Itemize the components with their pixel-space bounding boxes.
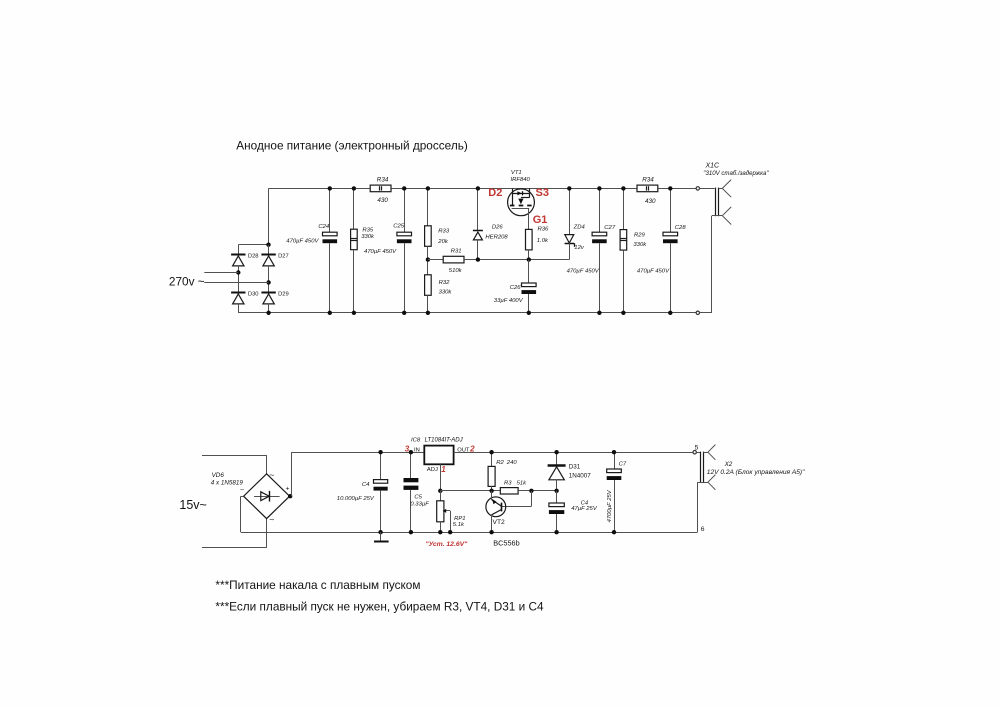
wire bottom rail xyxy=(241,532,697,534)
transistor VT1 IRF840 MOSFET xyxy=(508,188,535,215)
svg-text:VT1: VT1 xyxy=(511,170,522,176)
wiper RP1 xyxy=(443,509,451,532)
diode D31 xyxy=(548,452,566,491)
wire xyxy=(268,304,270,313)
junction xyxy=(409,530,413,534)
svg-text:HER208: HER208 xyxy=(485,234,508,240)
svg-text:4700µF 25V: 4700µF 25V xyxy=(607,489,613,522)
svg-text:"310V стаб./задержка": "310V стаб./задержка" xyxy=(703,170,769,177)
wire xyxy=(440,464,442,490)
junction xyxy=(266,280,270,284)
junction xyxy=(402,186,406,190)
wire AC input 1 xyxy=(204,272,238,274)
svg-text:IRF840: IRF840 xyxy=(511,177,531,183)
wire xyxy=(440,490,500,492)
svg-text:12v: 12v xyxy=(574,245,585,251)
svg-text:"Уст. 12.6V": "Уст. 12.6V" xyxy=(425,541,468,548)
svg-text:C4: C4 xyxy=(362,482,370,488)
svg-text:R33: R33 xyxy=(438,229,450,235)
junction xyxy=(597,311,601,315)
junction xyxy=(668,311,672,315)
junction xyxy=(426,311,430,315)
wire xyxy=(658,188,696,190)
capacitor C24 xyxy=(323,232,338,243)
wire xyxy=(491,452,493,466)
zener ZD4 xyxy=(565,188,575,259)
resistor R2 xyxy=(488,466,495,486)
svg-text:10.000µF 25V: 10.000µF 25V xyxy=(337,496,375,502)
wire xyxy=(427,295,429,313)
connector X2 xyxy=(696,445,715,533)
junction xyxy=(597,186,601,190)
svg-text:0.33µF: 0.33µF xyxy=(410,502,429,508)
svg-text:+: + xyxy=(286,486,290,493)
junction xyxy=(621,311,625,315)
svg-text:20k: 20k xyxy=(437,239,449,245)
wire xyxy=(268,188,270,244)
svg-text:330k: 330k xyxy=(361,234,375,240)
svg-text:430: 430 xyxy=(377,197,388,204)
wire xyxy=(599,243,601,313)
junction xyxy=(409,450,413,454)
ground xyxy=(374,532,389,541)
svg-text:5: 5 xyxy=(695,444,699,451)
wire xyxy=(238,244,268,246)
resistor R31 xyxy=(443,256,464,263)
wire xyxy=(440,491,442,501)
junction xyxy=(266,243,270,247)
svg-text:X1C: X1C xyxy=(705,163,721,170)
svg-text:Анодное питание (электронный д: Анодное питание (электронный дроссель) xyxy=(236,139,468,153)
wire AC in bottom xyxy=(202,547,267,549)
wire xyxy=(556,491,558,503)
svg-text:51k: 51k xyxy=(517,481,528,487)
wire xyxy=(329,188,331,232)
svg-text:R35: R35 xyxy=(362,228,374,234)
wire xyxy=(518,490,531,492)
junction xyxy=(352,311,356,315)
svg-text:470µF 450V: 470µF 450V xyxy=(637,269,670,275)
junction xyxy=(426,186,430,190)
svg-text:RP1: RP1 xyxy=(454,516,465,522)
wire xyxy=(518,490,557,492)
svg-text:C24: C24 xyxy=(318,224,330,230)
diode D26 xyxy=(473,231,483,240)
svg-text:D27: D27 xyxy=(278,254,289,260)
svg-text:C7: C7 xyxy=(619,462,627,468)
junction xyxy=(527,311,531,315)
capacitor C28 xyxy=(663,232,678,243)
wire xyxy=(266,455,268,474)
svg-text:R34: R34 xyxy=(642,176,654,183)
svg-text:D29: D29 xyxy=(278,292,289,298)
wire xyxy=(531,491,533,507)
wire xyxy=(599,188,601,232)
junction xyxy=(328,311,332,315)
junction xyxy=(567,186,571,190)
capacitor C4 (47µF) xyxy=(549,503,564,514)
wire AC input 2 xyxy=(204,282,268,284)
wire xyxy=(477,240,479,260)
junction xyxy=(489,489,493,493)
capacitor C4 (10000µF) xyxy=(374,480,388,491)
wire xyxy=(240,496,242,532)
svg-text:6: 6 xyxy=(701,526,705,533)
junction xyxy=(527,257,531,261)
wire xyxy=(501,506,531,508)
capacitor C5 xyxy=(404,452,419,532)
junction xyxy=(668,186,672,190)
svg-text:1.0k: 1.0k xyxy=(537,238,549,244)
svg-text:D31: D31 xyxy=(569,463,581,470)
junction xyxy=(612,530,616,534)
resistor R32 xyxy=(425,275,432,296)
capacitor C7 xyxy=(607,469,622,480)
regulator IC8 LT1084IT-ADJ xyxy=(424,446,453,465)
svg-text:R36: R36 xyxy=(538,226,550,232)
wire xyxy=(556,514,558,532)
junction xyxy=(489,450,493,454)
resistor R33 xyxy=(425,226,432,247)
svg-text:C26: C26 xyxy=(510,285,522,291)
svg-text:R32: R32 xyxy=(439,280,451,286)
wire xyxy=(614,452,616,469)
capacitor C25 xyxy=(397,232,412,243)
svg-text:~: ~ xyxy=(269,470,274,480)
svg-text:3: 3 xyxy=(405,445,410,454)
svg-text:5.1k: 5.1k xyxy=(453,522,465,528)
wire xyxy=(528,250,530,260)
wire xyxy=(670,188,672,232)
wire xyxy=(269,188,371,190)
wire xyxy=(428,259,443,261)
svg-text:–: – xyxy=(240,487,244,494)
bridge rectifier VD6 xyxy=(240,470,289,525)
junction xyxy=(236,270,240,274)
wire xyxy=(380,452,382,479)
wire xyxy=(268,266,270,292)
wire xyxy=(380,491,382,533)
diode D30 xyxy=(231,293,245,304)
resistor R3 xyxy=(500,488,518,494)
svg-text:D30: D30 xyxy=(248,292,259,298)
svg-text:S3: S3 xyxy=(536,187,549,199)
svg-text:1N4007: 1N4007 xyxy=(569,472,592,479)
wire xyxy=(241,496,244,498)
svg-text:470µF 450V: 470µF 450V xyxy=(286,239,319,245)
junction xyxy=(448,530,452,534)
transistor VT2 BC556b xyxy=(486,491,506,532)
wire xyxy=(238,245,240,254)
capacitor C26 xyxy=(522,283,537,294)
resistor R34 (left) xyxy=(370,185,391,192)
wire xyxy=(291,452,424,454)
junction xyxy=(378,530,382,534)
wire xyxy=(623,188,625,229)
svg-text:15v~: 15v~ xyxy=(179,498,206,512)
svg-text:D26: D26 xyxy=(492,225,504,231)
svg-text:330k: 330k xyxy=(633,242,647,248)
svg-text:240: 240 xyxy=(506,460,518,466)
svg-text:47µF 25V: 47µF 25V xyxy=(571,506,598,512)
junction xyxy=(438,530,442,534)
wire xyxy=(391,188,637,190)
svg-text:VT2: VT2 xyxy=(493,519,506,526)
junction xyxy=(489,530,493,534)
wire xyxy=(464,259,569,261)
wire xyxy=(614,480,616,532)
wire xyxy=(623,250,625,313)
terminal xyxy=(693,451,696,454)
wire xyxy=(266,519,268,548)
terminal xyxy=(696,187,699,190)
wire xyxy=(291,452,293,496)
junction xyxy=(621,186,625,190)
diode D28 xyxy=(231,255,245,266)
svg-text:BC556b: BC556b xyxy=(493,538,519,547)
wire xyxy=(440,522,442,532)
junction xyxy=(288,494,292,498)
svg-text:C27: C27 xyxy=(604,225,616,231)
svg-text:270v ~: 270v ~ xyxy=(169,275,205,289)
wire xyxy=(329,243,331,313)
wire xyxy=(528,208,530,229)
svg-text:C5: C5 xyxy=(414,495,422,501)
svg-text:IN: IN xyxy=(414,447,420,453)
svg-text:D2: D2 xyxy=(488,187,502,199)
wire xyxy=(427,188,429,225)
resistor R35 xyxy=(351,229,358,250)
junction xyxy=(612,450,616,454)
wire AC in top xyxy=(202,455,267,457)
wire xyxy=(427,260,429,275)
junction xyxy=(554,489,558,493)
junction xyxy=(476,257,480,261)
svg-text:IC8: IC8 xyxy=(411,438,421,444)
wire xyxy=(404,243,406,313)
svg-text:X2: X2 xyxy=(724,461,733,468)
svg-text:12V 0.2A (Блок управления А5)": 12V 0.2A (Блок управления А5)" xyxy=(707,469,805,476)
svg-text:ADJ: ADJ xyxy=(427,467,438,473)
junction xyxy=(378,450,382,454)
resistor R29 xyxy=(620,230,627,251)
junction xyxy=(328,186,332,190)
svg-text:33µF 400V: 33µF 400V xyxy=(494,298,524,304)
wire xyxy=(454,452,693,454)
junction xyxy=(554,530,558,534)
junction xyxy=(476,186,480,190)
svg-text:R34: R34 xyxy=(377,176,389,183)
junction xyxy=(266,311,270,315)
resistor R36 xyxy=(526,229,533,250)
connector X1C xyxy=(700,180,732,313)
capacitor C27 xyxy=(592,232,607,243)
junction xyxy=(352,186,356,190)
svg-text:470µF 450V: 470µF 450V xyxy=(364,249,397,255)
svg-text:R2: R2 xyxy=(496,460,504,466)
svg-text:***Питание накала с плавным пу: ***Питание накала с плавным пуском xyxy=(215,578,420,592)
wire xyxy=(670,243,672,313)
resistor RP1 xyxy=(437,501,444,522)
wire xyxy=(477,188,479,230)
svg-text:R29: R29 xyxy=(634,233,646,239)
wire xyxy=(528,260,530,283)
svg-text:430: 430 xyxy=(645,198,656,205)
svg-text:C25: C25 xyxy=(393,224,405,230)
wire xyxy=(491,486,493,490)
terminal xyxy=(696,311,699,314)
svg-text:D28: D28 xyxy=(248,254,259,260)
svg-text:510k: 510k xyxy=(449,268,463,274)
resistor R34 (right) xyxy=(637,185,658,192)
svg-text:4 x 1N5819: 4 x 1N5819 xyxy=(211,480,244,487)
wire xyxy=(427,246,429,259)
svg-text:C28: C28 xyxy=(675,225,687,231)
svg-text:LT1084IT-ADJ: LT1084IT-ADJ xyxy=(425,438,464,444)
svg-text:***Если плавный пуск не нужен,: ***Если плавный пуск не нужен, убираем R… xyxy=(215,599,544,613)
svg-text:ZD4: ZD4 xyxy=(573,225,586,231)
svg-text:VD6: VD6 xyxy=(212,472,225,479)
svg-text:470µF 450V: 470µF 450V xyxy=(567,269,600,275)
wire xyxy=(238,304,240,313)
svg-text:1: 1 xyxy=(441,465,446,474)
svg-text:~: ~ xyxy=(269,515,274,525)
diode D27 xyxy=(261,255,275,266)
diode D29 xyxy=(261,293,275,304)
wire xyxy=(528,294,530,313)
junction xyxy=(554,450,558,454)
svg-text:330k: 330k xyxy=(439,290,453,296)
junction xyxy=(402,311,406,315)
wire xyxy=(353,250,355,313)
svg-text:G1: G1 xyxy=(533,214,548,226)
svg-text:R31: R31 xyxy=(451,249,462,255)
junction xyxy=(438,489,442,493)
wire xyxy=(238,312,696,314)
wire xyxy=(268,245,270,254)
wire xyxy=(238,266,240,292)
wire xyxy=(353,188,355,229)
junction xyxy=(529,489,533,493)
wire xyxy=(404,188,406,232)
junction xyxy=(426,257,430,261)
svg-text:R3: R3 xyxy=(504,481,512,487)
